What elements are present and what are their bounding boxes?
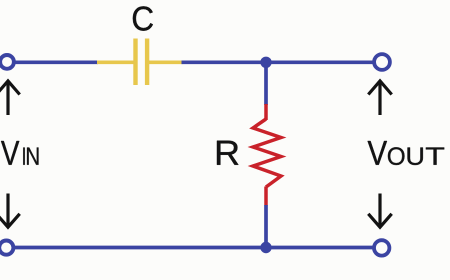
arrow down left (0, 194, 20, 228)
terminal top-left (0, 55, 14, 69)
label VOUT T (426, 148, 444, 165)
arrow down right (368, 194, 391, 228)
label VIN I (23, 148, 25, 165)
label VOUT U (408, 148, 423, 166)
terminal bottom-left (0, 241, 13, 255)
node junction top (260, 57, 271, 68)
node junction bottom (260, 242, 271, 253)
resistor R (253, 104, 281, 206)
terminal top-right (374, 54, 390, 70)
label VOUT O (388, 147, 405, 165)
wire top-left segment (12, 60, 98, 64)
capacitor C right lead (149, 60, 183, 64)
wire vertical blue upper (264, 62, 268, 105)
capacitor C left plate (133, 39, 137, 86)
label VIN V (1, 141, 19, 165)
terminal bottom-right (374, 240, 389, 255)
arrow up right (368, 81, 391, 115)
label C (133, 6, 153, 30)
label R (217, 141, 238, 165)
wire vertical blue lower (264, 205, 268, 248)
label VIN N (27, 148, 38, 165)
arrow up left (0, 81, 20, 115)
capacitor C left lead (97, 60, 134, 64)
wire bottom (12, 246, 374, 250)
capacitor C right plate (145, 39, 149, 86)
label VOUT V (368, 141, 387, 165)
wire top-right segment (182, 60, 375, 64)
